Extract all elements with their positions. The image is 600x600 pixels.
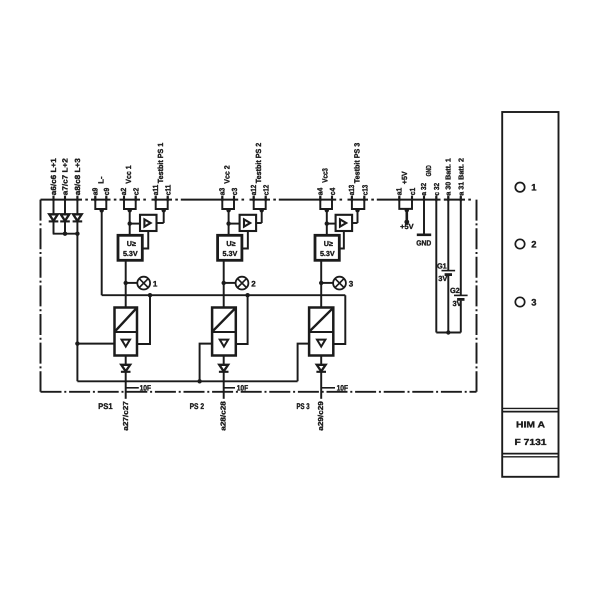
- svg-text:Vcc 1: Vcc 1: [124, 165, 133, 183]
- junction L+ bar / V3: [75, 232, 79, 236]
- svg-text:a4: a4: [316, 187, 325, 195]
- terminal a6/c6 L+1: [52, 196, 54, 202]
- bracket joining a1/c1: [399, 197, 412, 209]
- terminal c11 (Testbit PS 1): [167, 196, 169, 202]
- svg-text:c11: c11: [164, 185, 173, 196]
- wire to output terminal PS3: [320, 372, 322, 399]
- wire K2 return to L- rail: [236, 295, 248, 344]
- frame right border (dash-dot): [476, 200, 478, 392]
- front panel LED 2: [515, 239, 524, 248]
- wire a30 to battery G1: [447, 197, 449, 271]
- front panel divider upper 2: [502, 411, 558, 413]
- front panel LED 1: [515, 183, 524, 192]
- svg-text:5.3V: 5.3V: [320, 249, 335, 258]
- svg-text:1: 1: [153, 279, 158, 288]
- svg-text:c4: c4: [328, 187, 337, 195]
- svg-text:a13: a13: [347, 185, 356, 196]
- junction L- rail / K1 return: [148, 293, 152, 297]
- svg-text:a29/c29: a29/c29: [316, 401, 325, 431]
- svg-text:a3: a3: [218, 188, 227, 196]
- wire +5V stub: [405, 210, 408, 222]
- svg-text:2: 2: [531, 238, 536, 249]
- svg-text:a27/c27: a27/c27: [121, 401, 130, 431]
- bracket joining a11/c11: [156, 197, 168, 210]
- wire to lamp H1: [126, 282, 138, 284]
- bracket joining a3/c3: [222, 197, 234, 210]
- wire to output terminal PS1: [125, 372, 127, 399]
- svg-text:a12: a12: [249, 185, 258, 196]
- wire to buffer N2 input: [229, 223, 240, 225]
- svg-text:10F: 10F: [140, 383, 152, 392]
- svg-text:a 32: a 32: [419, 183, 428, 196]
- L+ common bar: [53, 233, 79, 235]
- lamp H3 (indicator 3): [333, 277, 346, 290]
- front panel outline F7131: [502, 112, 558, 477]
- svg-text:c12: c12: [262, 185, 271, 196]
- diode V6 (output): [316, 365, 326, 372]
- terminal a11 (Testbit PS 1): [155, 196, 157, 202]
- svg-text:a6/c6 L+1: a6/c6 L+1: [49, 158, 58, 195]
- svg-text:a2: a2: [119, 188, 128, 196]
- wire a7/c7 to diode V2: [64, 197, 66, 215]
- terminal c2 (Vcc 1): [135, 196, 137, 202]
- L- horizontal rail: [102, 294, 346, 296]
- buffer amplifier N1: [140, 215, 157, 231]
- node Vcc1 bracket: [128, 208, 132, 212]
- L+ bus horizontal wire: [77, 380, 297, 382]
- terminal a13 (Testbit PS 3): [351, 196, 353, 202]
- svg-text:3: 3: [531, 296, 536, 307]
- terminal a32 (GND): [423, 196, 425, 202]
- fuse tap 10F (PS1): [126, 387, 139, 389]
- wire Vcc2 down to threshold detector U2: [228, 210, 230, 236]
- svg-text:Testbit PS 2: Testbit PS 2: [254, 143, 263, 184]
- terminal a3 (Vcc 2): [221, 196, 223, 202]
- threshold detector U3 (U>= 5.3V): [315, 235, 339, 260]
- front panel divider lower 1: [502, 453, 558, 455]
- svg-text:PS 3: PS 3: [297, 402, 311, 411]
- node Vcc3 bracket: [325, 208, 329, 212]
- wire Vcc1 down to threshold detector U1: [129, 210, 131, 236]
- wire a32 to ground: [423, 197, 425, 235]
- svg-text:10F: 10F: [237, 383, 249, 392]
- terminal a4 (Vcc 3): [319, 196, 321, 202]
- wire diode V1 to L+ bus bar: [53, 222, 55, 234]
- svg-text:G2: G2: [450, 286, 460, 295]
- front panel divider upper 1: [502, 407, 558, 409]
- node Testbit2 bracket: [260, 208, 264, 212]
- svg-text:+5V: +5V: [400, 222, 414, 231]
- terminal c3 (Vcc 2): [233, 196, 235, 202]
- terminal a8/c8 L+3: [76, 196, 78, 202]
- svg-text:5.3V: 5.3V: [223, 249, 238, 258]
- lamp H2 (indicator 2): [236, 277, 249, 290]
- node Testbit1 bracket: [162, 208, 166, 212]
- svg-text:G1: G1: [437, 262, 447, 271]
- terminal c9 (L-): [105, 196, 107, 202]
- wire K3 return to L- rail: [333, 295, 345, 344]
- bracket joining a2/c2: [124, 197, 136, 210]
- svg-text:GND: GND: [416, 238, 432, 247]
- bracket joining a4/c4: [320, 197, 332, 210]
- svg-text:c 32: c 32: [432, 183, 441, 196]
- terminal a12 (Testbit PS 2): [253, 196, 255, 202]
- svg-text:10F: 10F: [337, 383, 349, 392]
- svg-text:U≥: U≥: [127, 239, 136, 248]
- wire G2 to return bar: [460, 301, 462, 333]
- wire L+ feed to K3: [298, 344, 310, 382]
- wire U1 output to buffer N1: [142, 231, 148, 249]
- diode V5 (output): [219, 365, 229, 372]
- terminal c12 (Testbit PS 2): [265, 196, 267, 202]
- terminal a31 (Batt. 2): [460, 196, 462, 202]
- svg-text:3: 3: [349, 279, 354, 288]
- wire to buffer N1 input: [130, 223, 140, 225]
- wire c32 down to battery return: [435, 197, 437, 333]
- buffer amplifier N2: [240, 215, 257, 231]
- svg-text:a8/c8 L+3: a8/c8 L+3: [73, 158, 82, 195]
- wire a8/c8 to diode V3: [76, 197, 78, 215]
- wire a31 to battery G2: [460, 197, 462, 296]
- wire U2 output to buffer N2: [242, 231, 248, 249]
- wire U1 to relay K1: [125, 260, 127, 307]
- wire buffer N3 output: [352, 222, 357, 224]
- wire diode V2 to L+ bus bar: [64, 222, 66, 234]
- terminal a1 (+5V): [398, 196, 400, 202]
- frame left border (dash-dot): [40, 200, 42, 392]
- svg-text:+5V: +5V: [400, 171, 409, 184]
- wire K2 to diode V5: [223, 356, 225, 365]
- svg-text:c3: c3: [230, 188, 239, 196]
- svg-text:a1: a1: [394, 188, 403, 196]
- wire to lamp H2: [224, 282, 236, 284]
- junction L+ bus / K2 coil feed: [197, 379, 201, 383]
- wire L+ feed to K2: [200, 344, 213, 382]
- diode V1 (L+1): [49, 214, 59, 221]
- wire to output terminal PS2: [223, 372, 225, 399]
- svg-text:HIM A: HIM A: [516, 420, 546, 430]
- terminal a7/c7 L+2: [64, 196, 66, 202]
- svg-text:1: 1: [531, 182, 536, 193]
- svg-text:c1: c1: [408, 188, 417, 196]
- wire K1 return to L- rail: [137, 295, 150, 344]
- svg-text:PS 2: PS 2: [190, 402, 205, 411]
- wire up to Testbit2 bracket: [261, 210, 263, 223]
- svg-text:PS1: PS1: [98, 402, 113, 411]
- node L- bracket: [100, 208, 104, 212]
- relay K3 (coupling element): [309, 308, 333, 356]
- fuse tap 10F (PS3): [321, 387, 335, 389]
- junction battery return / G1: [446, 330, 450, 334]
- svg-text:5.3V: 5.3V: [123, 249, 138, 258]
- relay K2 (coupling element): [212, 308, 236, 356]
- wire buffer N1 output: [157, 222, 164, 224]
- junction lamp H1 tap: [124, 281, 128, 285]
- bracket joining a9/c9: [95, 197, 106, 210]
- svg-text:3V: 3V: [438, 274, 447, 283]
- terminal c32 (GND): [435, 196, 437, 202]
- terminal c1 (+5V): [411, 196, 413, 202]
- svg-text:a11: a11: [151, 185, 160, 196]
- diode V3 (L+3): [73, 214, 83, 221]
- terminal c13 (Testbit PS 3): [363, 196, 365, 202]
- wire K1 to diode V4: [125, 356, 127, 365]
- svg-text:a 31 Batt. 2: a 31 Batt. 2: [456, 158, 465, 196]
- junction lamp H3 tap: [319, 281, 323, 285]
- lamp H1 (indicator 1): [137, 277, 150, 290]
- fuse tap 10F (PS2): [224, 387, 235, 389]
- node +5V output: [404, 220, 409, 225]
- wire a6/c6 to diode V1: [53, 197, 55, 215]
- wire U3 to relay K3: [320, 260, 322, 307]
- svg-text:U≥: U≥: [226, 239, 235, 248]
- junction lamp H2 tap: [222, 281, 226, 285]
- wire G1 to return bar: [447, 276, 449, 333]
- battery G1 3V: [442, 271, 456, 275]
- wire to buffer N3 input: [327, 223, 336, 225]
- diode V4 (output): [121, 365, 131, 372]
- junction L+ bus / K1 coil feed: [75, 341, 79, 345]
- threshold detector U2 (U>= 5.3V): [218, 235, 242, 260]
- frame bottom border (dash-dot): [41, 391, 477, 393]
- relay K1 (coupling element): [115, 308, 138, 356]
- battery G2 3V: [454, 295, 468, 299]
- wire K3 to diode V6: [320, 356, 322, 365]
- svg-text:U≥: U≥: [324, 239, 333, 248]
- terminal a2 (Vcc 1): [123, 196, 125, 202]
- front panel LED 3: [515, 297, 524, 306]
- buffer amplifier N3: [336, 215, 353, 231]
- terminal a30 (Batt. 1): [447, 196, 449, 202]
- svg-text:a9: a9: [90, 188, 99, 196]
- wire buffer N2 output: [256, 222, 262, 224]
- terminal c4 (Vcc 3): [331, 196, 333, 202]
- junction L- rail / K2 return: [245, 293, 249, 297]
- svg-text:a7/c7 L+2: a7/c7 L+2: [61, 158, 70, 195]
- bracket joining a12/c12: [254, 197, 266, 210]
- svg-text:2: 2: [251, 279, 256, 288]
- L- vertical wire: [101, 210, 103, 296]
- junction Vcc1 / buffer input: [128, 221, 132, 225]
- bracket joining a13/c13: [352, 197, 364, 210]
- wire to lamp H3: [321, 282, 333, 284]
- L+ bus vertical wire: [76, 234, 78, 382]
- junction L+ bar / V2: [63, 232, 67, 236]
- ground symbol: [417, 234, 431, 237]
- svg-text:GND: GND: [424, 165, 433, 176]
- wire U2 to relay K2: [223, 260, 225, 307]
- svg-text:Testbit PS 3: Testbit PS 3: [352, 143, 361, 184]
- node +5V bracket: [405, 208, 409, 212]
- svg-text:F 7131: F 7131: [515, 437, 547, 447]
- front panel divider lower 2: [502, 456, 558, 458]
- svg-text:c2: c2: [132, 188, 141, 196]
- wire U3 output to buffer N3: [339, 231, 344, 249]
- junction Vcc2 / buffer input: [226, 221, 230, 225]
- svg-text:c13: c13: [360, 185, 369, 196]
- svg-text:Testbit PS 1: Testbit PS 1: [156, 143, 165, 184]
- node Testbit3 bracket: [355, 208, 359, 212]
- battery return bar: [436, 332, 461, 334]
- wire Vcc3 down to threshold detector U3: [326, 210, 328, 236]
- svg-text:Vcc3: Vcc3: [321, 168, 330, 183]
- svg-text:c9: c9: [102, 188, 111, 196]
- terminal a9 (L-): [94, 196, 96, 202]
- junction Vcc3 / buffer input: [325, 221, 329, 225]
- top frame line (module edge, solid under terminal groups): [41, 199, 471, 201]
- svg-text:Vcc 2: Vcc 2: [223, 165, 232, 183]
- node Vcc2 bracket: [226, 208, 230, 212]
- wire L+ feed to K1: [77, 343, 114, 345]
- diode V2 (L+2): [60, 214, 70, 221]
- threshold detector U1 (U>= 5.3V): [118, 235, 142, 260]
- svg-text:a28/c28: a28/c28: [219, 401, 228, 431]
- svg-text:a 30 Batt. 1: a 30 Batt. 1: [444, 158, 453, 196]
- wire up to Testbit1 bracket: [163, 210, 165, 223]
- wire diode V3 to L+ bus bar: [76, 222, 78, 234]
- wire up to Testbit3 bracket: [357, 210, 359, 223]
- svg-text:L-: L-: [96, 176, 105, 184]
